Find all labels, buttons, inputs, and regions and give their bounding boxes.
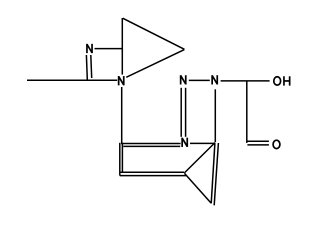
wire N1-C4 horizontal: [95, 48, 124, 50]
wire C8=C9 line1: [211, 143, 215, 203]
wire quad top upper: [121, 143, 181, 145]
wire quad bottom upper: [120, 171, 184, 173]
wire N7-C8 horizontal: [190, 142, 215, 144]
atom label O aldehyde: [273, 140, 280, 148]
wire rightN-C10-OH horizontal: [221, 80, 270, 82]
wire C8=C9 line2: [214, 143, 218, 205]
atom label azo right N: [212, 75, 217, 84]
wire C11=O line2: [247, 144, 269, 146]
wire vertical apex C5-C4-N3: [121, 18, 123, 75]
atom label N7: [182, 138, 187, 147]
wire methyl C2-N3 horizontal: [27, 79, 117, 81]
wire N1=C2 double bond line a: [85, 55, 88, 80]
atom label O of OH: [274, 77, 281, 85]
wire C10 down vertical: [246, 81, 248, 143]
atom label azo left N: [181, 75, 186, 84]
wire azoN-azoN horizontal: [189, 79, 210, 81]
atom label N3: [119, 76, 124, 85]
wire V-C9 diagonal: [184, 173, 211, 203]
wire C11=O line1: [247, 140, 269, 142]
wire quad left outer: [119, 143, 121, 176]
wire C5-C6 diagonal: [123, 18, 185, 49]
atom label H of OH: [284, 76, 290, 85]
wire quad bottom lower: [120, 175, 186, 177]
wire N1=C2 double bond line b: [90, 55, 93, 78]
wire V-C8 diagonal: [184, 143, 215, 173]
wire azoN=N7 double line a: [180, 88, 182, 137]
wire rightN-C8 vertical: [214, 89, 216, 142]
wire N3 down vertical: [121, 87, 123, 144]
wire quad left inner: [121, 143, 123, 173]
wire azoN=N7 double line b: [185, 88, 187, 137]
atom label N1: [87, 44, 92, 53]
wire quad top inner: [123, 145, 180, 147]
wire C6-N3 diagonal: [126, 50, 184, 78]
